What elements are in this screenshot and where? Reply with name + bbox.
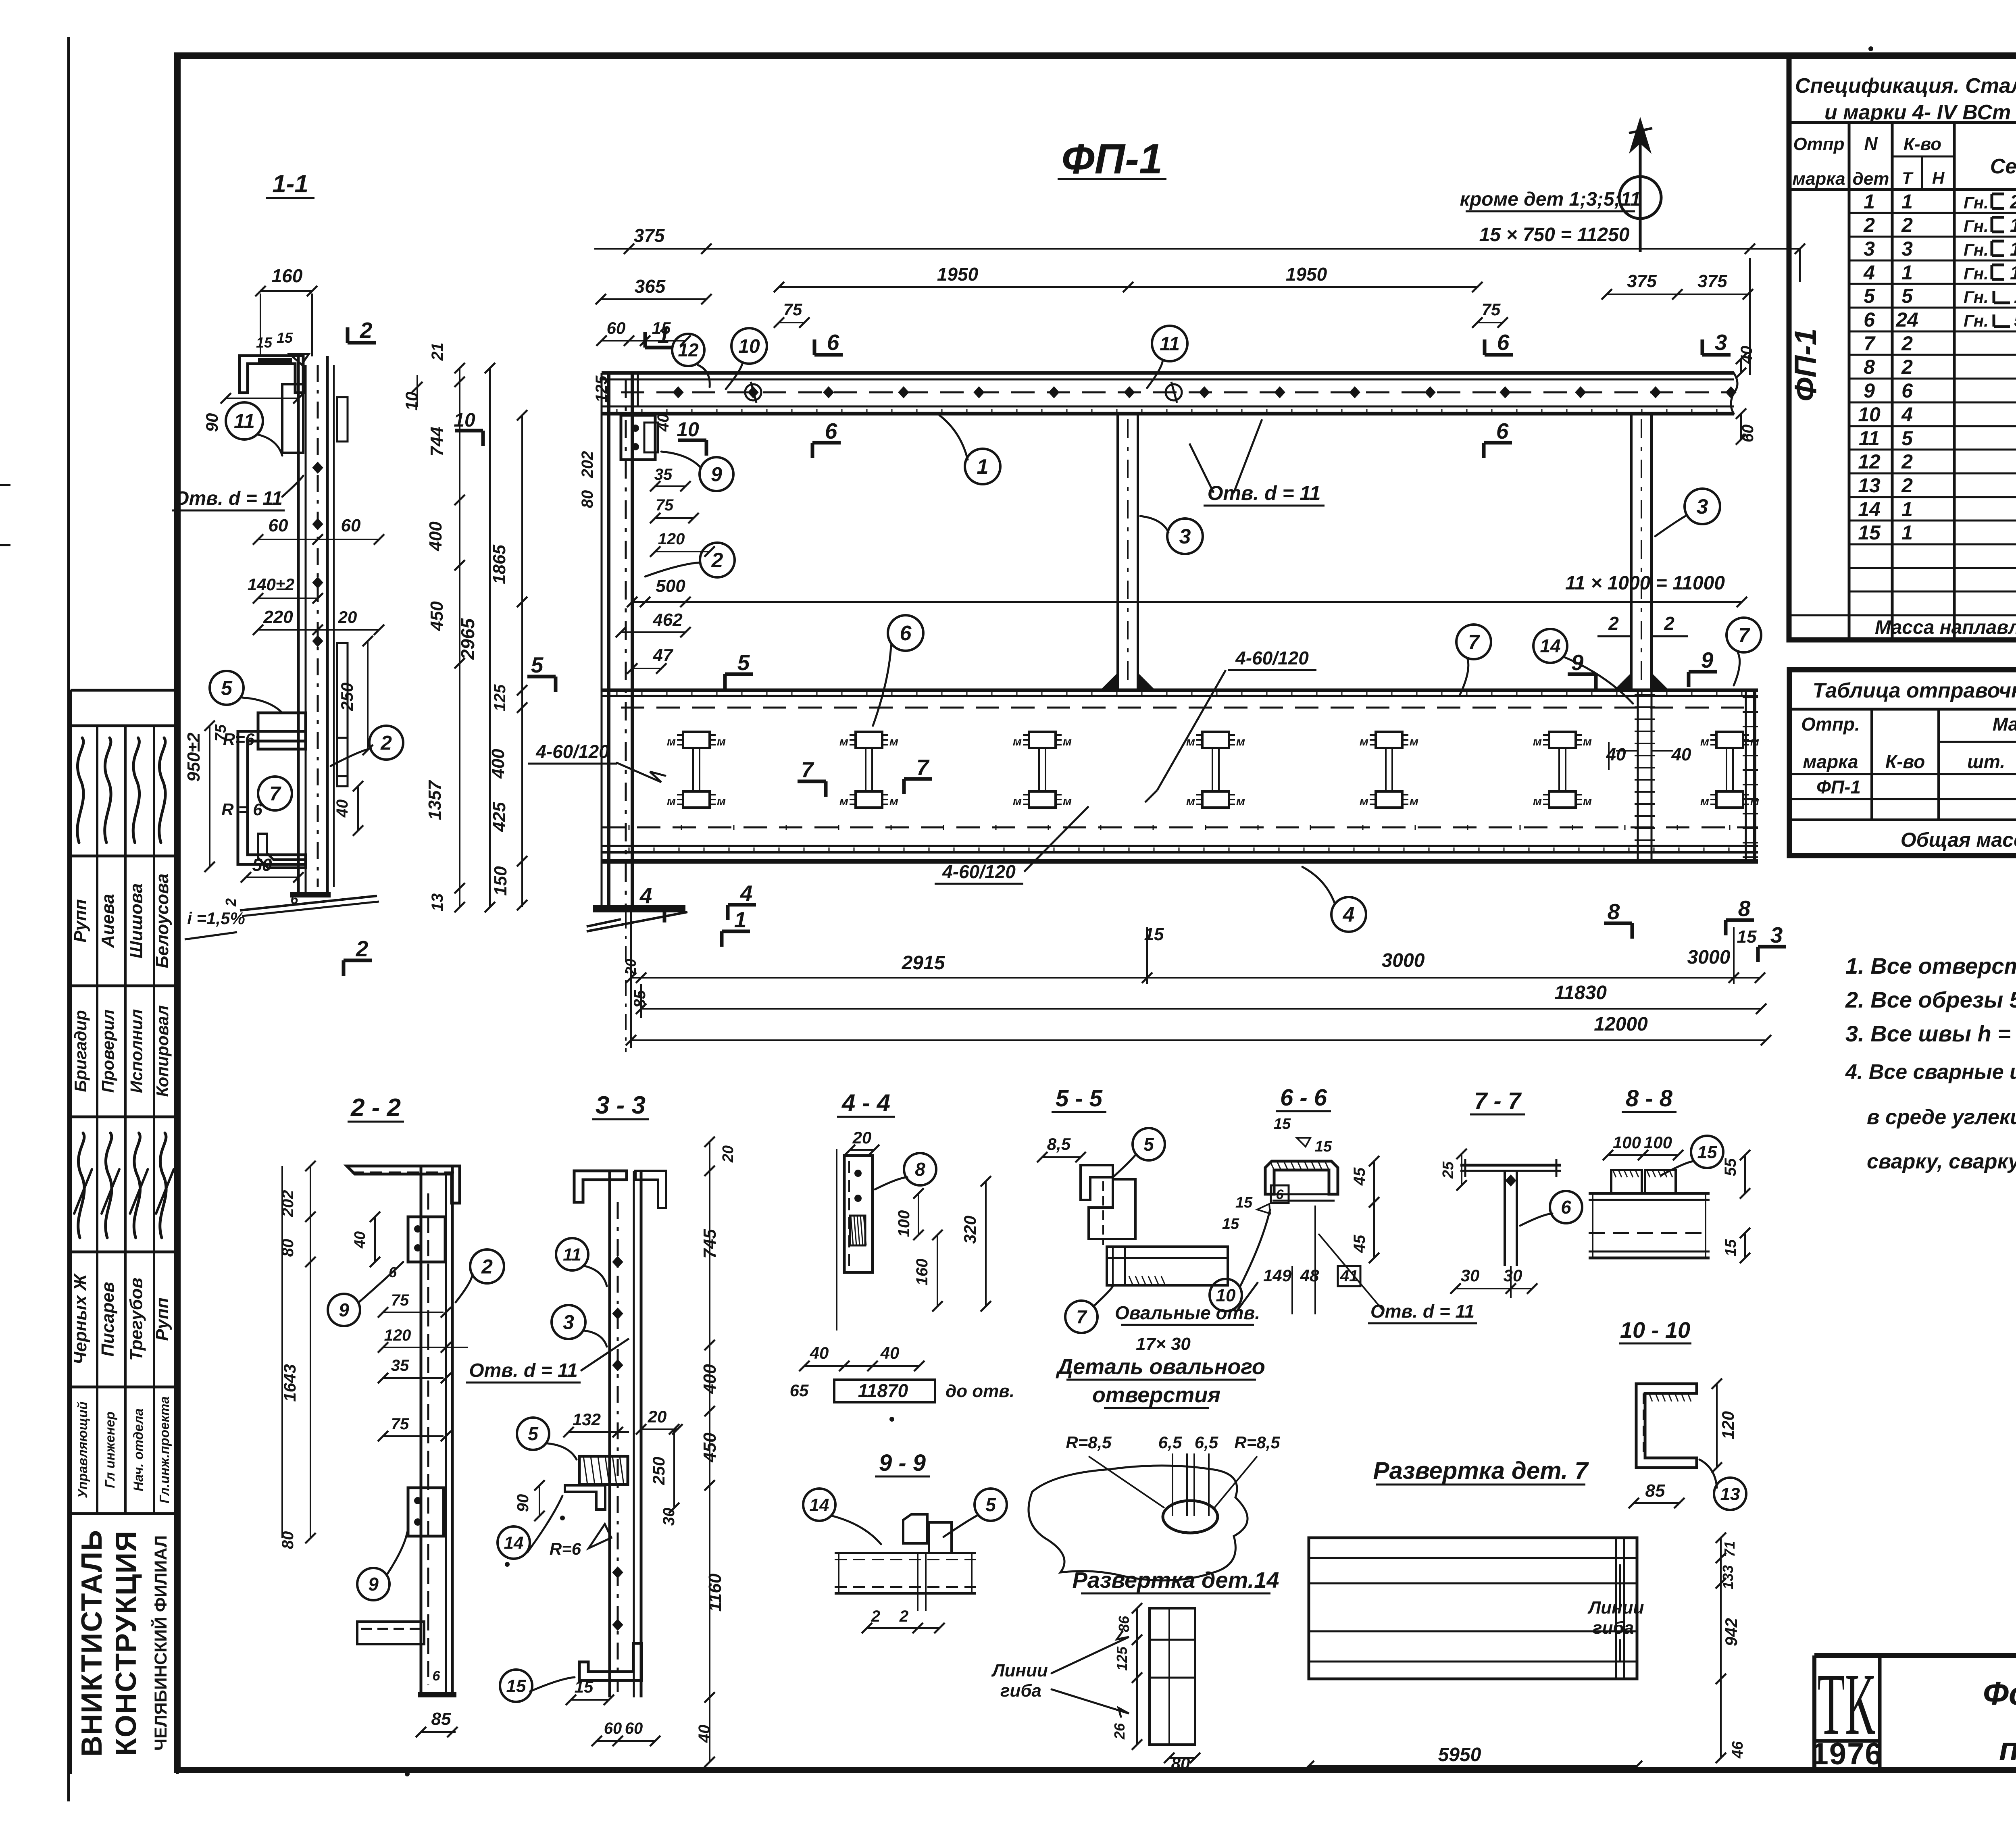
svg-text:10: 10 bbox=[738, 336, 760, 357]
svg-text:Гн.: Гн. bbox=[1964, 217, 1989, 235]
svg-text:Деталь овального: Деталь овального bbox=[1056, 1355, 1265, 1379]
svg-text:м: м bbox=[1013, 735, 1022, 748]
svg-text:8: 8 bbox=[1864, 356, 1875, 378]
svg-text:7 - 7: 7 - 7 bbox=[1474, 1088, 1522, 1114]
svg-text:90: 90 bbox=[202, 413, 221, 432]
svg-text:4 - 4: 4 - 4 bbox=[841, 1089, 890, 1116]
svg-text:250: 250 bbox=[649, 1457, 668, 1485]
svg-text:Развертка дет.14: Развертка дет.14 bbox=[1072, 1567, 1279, 1593]
svg-text:125: 125 bbox=[593, 375, 610, 402]
svg-text:250×125×6: 250×125×6 bbox=[2010, 192, 2016, 213]
svg-text:2: 2 bbox=[1608, 613, 1619, 634]
svg-text:5: 5 bbox=[1901, 427, 1913, 450]
svg-text:15: 15 bbox=[256, 334, 273, 351]
svg-text:40: 40 bbox=[654, 414, 672, 432]
svg-text:м: м bbox=[1236, 795, 1245, 808]
svg-text:80: 80 bbox=[279, 1239, 297, 1257]
svg-text:3: 3 bbox=[563, 1311, 574, 1334]
svg-text:2: 2 bbox=[1901, 474, 1913, 497]
svg-text:5: 5 bbox=[528, 1423, 539, 1444]
svg-text:10 - 10: 10 - 10 bbox=[1620, 1317, 1690, 1343]
svg-text:320: 320 bbox=[960, 1216, 979, 1244]
svg-text:202: 202 bbox=[579, 451, 596, 479]
svg-text:3: 3 bbox=[1179, 525, 1191, 548]
svg-text:20: 20 bbox=[852, 1128, 872, 1147]
svg-text:Гн.: Гн. bbox=[1964, 264, 1989, 283]
svg-text:75: 75 bbox=[1482, 300, 1501, 319]
svg-text:Отв. d = 11: Отв. d = 11 bbox=[1208, 482, 1321, 504]
svg-text:6 - 6: 6 - 6 bbox=[1280, 1085, 1327, 1111]
svg-text:м: м bbox=[1583, 735, 1592, 748]
svg-text:5: 5 bbox=[531, 652, 544, 677]
svg-text:85: 85 bbox=[1645, 1481, 1665, 1501]
svg-text:40: 40 bbox=[696, 1725, 713, 1743]
svg-text:1865: 1865 bbox=[489, 545, 509, 584]
svg-text:1643: 1643 bbox=[280, 1364, 299, 1401]
svg-text:2: 2 bbox=[711, 549, 723, 572]
svg-text:3: 3 bbox=[1901, 237, 1913, 260]
svg-text:400: 400 bbox=[700, 1364, 720, 1394]
svg-text:9: 9 bbox=[368, 1574, 379, 1595]
svg-text:3: 3 bbox=[1697, 495, 1708, 518]
svg-text:м: м bbox=[1360, 735, 1368, 748]
svg-text:75: 75 bbox=[783, 300, 802, 319]
svg-text:м: м bbox=[1410, 735, 1418, 748]
svg-text:Исполнил: Исполнил bbox=[127, 1009, 146, 1093]
svg-text:20: 20 bbox=[338, 608, 357, 627]
svg-text:6: 6 bbox=[433, 1668, 441, 1684]
svg-text:К-во: К-во bbox=[1885, 751, 1925, 772]
svg-text:125: 125 bbox=[1114, 1646, 1130, 1671]
svg-text:60: 60 bbox=[1739, 425, 1757, 443]
svg-text:до отв.: до отв. bbox=[946, 1381, 1014, 1401]
svg-text:11: 11 bbox=[1160, 333, 1180, 355]
svg-text:65: 65 bbox=[790, 1381, 809, 1400]
svg-text:К-во: К-во bbox=[1904, 134, 1941, 154]
svg-text:15: 15 bbox=[1315, 1138, 1332, 1155]
svg-text:6: 6 bbox=[825, 419, 837, 444]
svg-text:1: 1 bbox=[734, 907, 747, 932]
svg-text:Нач. отдела: Нач. отдела bbox=[131, 1408, 146, 1491]
svg-text:Гн.: Гн. bbox=[1964, 311, 1989, 330]
svg-text:R=6: R=6 bbox=[550, 1539, 581, 1558]
svg-text:м: м bbox=[1063, 735, 1072, 748]
svg-text:Гн.: Гн. bbox=[1964, 193, 1989, 212]
svg-text:Гн.: Гн. bbox=[1964, 240, 1989, 259]
svg-text:Сечение: Сечение bbox=[1990, 155, 2016, 178]
svg-text:м: м bbox=[1013, 795, 1022, 808]
svg-text:4: 4 bbox=[740, 881, 753, 906]
svg-text:5 - 5: 5 - 5 bbox=[1056, 1085, 1103, 1112]
svg-text:м: м bbox=[717, 795, 726, 808]
svg-text:R=8,5: R=8,5 bbox=[1066, 1433, 1112, 1452]
svg-text:м: м bbox=[839, 795, 848, 808]
svg-text:20: 20 bbox=[720, 1145, 737, 1163]
svg-text:м: м bbox=[1750, 735, 1759, 748]
svg-text:8 - 8: 8 - 8 bbox=[1626, 1085, 1673, 1112]
svg-text:80: 80 bbox=[279, 1531, 297, 1549]
svg-text:1976: 1976 bbox=[1811, 1737, 1883, 1771]
svg-text:при шаге ферм 12м: при шаге ферм 12м bbox=[1999, 1731, 2016, 1768]
svg-text:7: 7 bbox=[1076, 1306, 1087, 1327]
svg-text:ФП-1: ФП-1 bbox=[1816, 777, 1861, 797]
svg-text:6,5: 6,5 bbox=[1158, 1433, 1182, 1452]
svg-text:8: 8 bbox=[1738, 896, 1751, 921]
svg-text:6: 6 bbox=[1864, 308, 1875, 331]
svg-text:50: 50 bbox=[252, 855, 272, 875]
svg-text:55: 55 bbox=[1722, 1158, 1739, 1176]
svg-text:8,5: 8,5 bbox=[1047, 1135, 1071, 1154]
svg-text:гиба: гиба bbox=[1593, 1618, 1634, 1638]
svg-text:Черных Ж: Черных Ж bbox=[71, 1273, 90, 1364]
svg-text:м: м bbox=[1236, 735, 1245, 748]
svg-text:3000: 3000 bbox=[1382, 950, 1425, 971]
svg-text:м: м bbox=[1360, 795, 1368, 808]
svg-text:Гл инженер: Гл инженер bbox=[102, 1412, 117, 1488]
svg-text:75: 75 bbox=[656, 496, 674, 514]
svg-text:2: 2 bbox=[380, 732, 392, 754]
svg-text:25: 25 bbox=[1440, 1161, 1457, 1179]
svg-text:Отпр.: Отпр. bbox=[1801, 714, 1860, 735]
svg-text:Отв. d = 11: Отв. d = 11 bbox=[1370, 1301, 1475, 1322]
svg-text:1: 1 bbox=[977, 455, 989, 479]
svg-text:160: 160 bbox=[272, 265, 303, 286]
svg-text:2: 2 bbox=[1901, 214, 1913, 236]
svg-text:1: 1 bbox=[1901, 261, 1913, 284]
svg-text:4: 4 bbox=[1901, 403, 1913, 426]
svg-text:м: м bbox=[717, 735, 726, 748]
svg-text:15: 15 bbox=[652, 319, 671, 337]
svg-text:2: 2 bbox=[1901, 332, 1913, 355]
svg-text:1950: 1950 bbox=[1286, 264, 1327, 285]
svg-text:120×60×6: 120×60×6 bbox=[2010, 262, 2016, 284]
svg-text:м: м bbox=[1700, 795, 1709, 808]
svg-text:950±2: 950±2 bbox=[184, 732, 204, 782]
svg-text:5: 5 bbox=[985, 1494, 996, 1515]
svg-text:Таблица отправочных марок: Таблица отправочных марок bbox=[1812, 679, 2016, 702]
svg-text:40: 40 bbox=[352, 1231, 369, 1249]
svg-text:отверстия: отверстия bbox=[1092, 1383, 1220, 1407]
svg-text:942: 942 bbox=[1722, 1618, 1741, 1646]
svg-text:5: 5 bbox=[221, 677, 233, 700]
svg-text:4: 4 bbox=[1863, 261, 1875, 284]
svg-text:1357: 1357 bbox=[425, 780, 445, 820]
svg-text:гиба: гиба bbox=[1000, 1681, 1041, 1701]
svg-text:14: 14 bbox=[1540, 635, 1560, 656]
svg-text:Общая масса:: Общая масса: bbox=[1901, 829, 2016, 851]
svg-text:120: 120 bbox=[1718, 1411, 1737, 1439]
svg-text:450: 450 bbox=[700, 1433, 720, 1463]
svg-text:Управляющий: Управляющий bbox=[75, 1401, 90, 1498]
svg-text:м: м bbox=[1063, 795, 1072, 808]
svg-text:120: 120 bbox=[658, 530, 685, 548]
svg-text:3: 3 bbox=[1715, 330, 1727, 355]
svg-text:2: 2 bbox=[356, 936, 369, 961]
svg-text:2: 2 bbox=[1901, 450, 1913, 473]
svg-text:60: 60 bbox=[604, 1720, 622, 1737]
svg-text:100: 100 bbox=[895, 1210, 913, 1237]
svg-text:7: 7 bbox=[269, 783, 281, 805]
svg-text:марка: марка bbox=[1803, 751, 1858, 772]
svg-text:1: 1 bbox=[1901, 498, 1913, 521]
svg-text:2: 2 bbox=[1664, 613, 1674, 634]
svg-text:375: 375 bbox=[1697, 271, 1727, 291]
svg-text:м: м bbox=[1186, 795, 1195, 808]
svg-text:3 - 3: 3 - 3 bbox=[596, 1091, 646, 1119]
svg-text:ВНИКТИСТАЛЬ: ВНИКТИСТАЛЬ bbox=[76, 1529, 108, 1757]
svg-text:17× 30: 17× 30 bbox=[1136, 1334, 1191, 1354]
svg-text:11: 11 bbox=[563, 1245, 581, 1264]
svg-text:Гл.инж.проекта: Гл.инж.проекта bbox=[157, 1396, 172, 1503]
svg-text:4-60/120: 4-60/120 bbox=[942, 861, 1016, 882]
svg-text:сварку, сварку производить: сварку, сварку производить электродами т… bbox=[1867, 1150, 2016, 1173]
svg-text:4. Все сварные швы выполнять: 4. Все сварные швы выполнять полуавтомат… bbox=[1845, 1060, 2016, 1084]
svg-text:9 - 9: 9 - 9 bbox=[879, 1450, 926, 1476]
svg-text:462: 462 bbox=[652, 610, 683, 630]
svg-text:1-1: 1-1 bbox=[272, 170, 308, 198]
svg-text:45: 45 bbox=[1351, 1235, 1368, 1253]
svg-text:1950: 1950 bbox=[937, 264, 979, 285]
svg-text:3: 3 bbox=[1864, 237, 1875, 260]
svg-text:1. Все отверстия d = 23,: 1. Все отверстия d = 23, bbox=[1845, 953, 2016, 979]
svg-text:Бригадир: Бригадир bbox=[71, 1010, 90, 1092]
svg-text:250: 250 bbox=[337, 683, 356, 711]
svg-text:Фонарная панель фП-1: Фонарная панель фП-1 bbox=[1983, 1675, 2016, 1712]
svg-text:м: м bbox=[667, 735, 676, 748]
svg-text:2965: 2965 bbox=[457, 618, 478, 660]
svg-text:100× 5: 100× 5 bbox=[2014, 286, 2016, 307]
svg-text:10: 10 bbox=[454, 410, 475, 431]
svg-text:7: 7 bbox=[801, 757, 814, 782]
svg-text:21: 21 bbox=[429, 343, 446, 361]
svg-text:3000: 3000 bbox=[1687, 947, 1731, 968]
svg-text:15 × 750 = 11250: 15 × 750 = 11250 bbox=[1479, 224, 1630, 246]
svg-text:R=8,5: R=8,5 bbox=[1234, 1433, 1280, 1452]
svg-text:15: 15 bbox=[1858, 521, 1881, 544]
svg-text:125: 125 bbox=[491, 684, 509, 711]
svg-text:R = 6: R = 6 bbox=[221, 800, 262, 819]
svg-text:1: 1 bbox=[1864, 190, 1875, 213]
svg-text:Рупп: Рупп bbox=[152, 1297, 172, 1341]
svg-text:85: 85 bbox=[431, 1709, 451, 1729]
svg-text:2: 2 bbox=[899, 1607, 908, 1625]
svg-text:50×3: 50×3 bbox=[2014, 310, 2016, 331]
svg-text:202: 202 bbox=[279, 1190, 297, 1218]
svg-text:9: 9 bbox=[1864, 379, 1875, 402]
svg-text:375: 375 bbox=[1627, 271, 1657, 291]
svg-text:149: 149 bbox=[1263, 1266, 1292, 1285]
svg-text:5: 5 bbox=[737, 650, 750, 675]
svg-text:140±2: 140±2 bbox=[248, 575, 294, 594]
svg-text:15: 15 bbox=[1722, 1239, 1739, 1256]
svg-text:м: м bbox=[1750, 795, 1759, 808]
svg-text:Аиева: Аиева bbox=[98, 894, 118, 948]
svg-text:2: 2 bbox=[1863, 214, 1875, 236]
svg-text:30: 30 bbox=[1504, 1266, 1522, 1285]
svg-text:40: 40 bbox=[810, 1343, 829, 1362]
svg-text:8: 8 bbox=[1608, 899, 1620, 924]
svg-text:Гн.: Гн. bbox=[1964, 287, 1989, 306]
svg-text:425: 425 bbox=[489, 802, 509, 832]
svg-text:1160: 1160 bbox=[705, 1573, 725, 1612]
svg-text:6: 6 bbox=[900, 622, 912, 645]
svg-text:2: 2 bbox=[1901, 356, 1913, 378]
svg-text:365: 365 bbox=[635, 276, 666, 297]
svg-text:2 - 2: 2 - 2 bbox=[350, 1094, 401, 1122]
svg-text:745: 745 bbox=[700, 1229, 720, 1259]
svg-text:в среде углекислого газа; в: в среде углекислого газа; в случае перех… bbox=[1867, 1106, 2016, 1129]
svg-text:40: 40 bbox=[880, 1343, 900, 1362]
svg-text:Т: Т bbox=[1902, 169, 1914, 187]
svg-text:40: 40 bbox=[1738, 346, 1756, 364]
svg-text:11: 11 bbox=[234, 410, 255, 433]
svg-text:Развертка дет. 7: Развертка дет. 7 bbox=[1373, 1457, 1589, 1484]
svg-text:дет: дет bbox=[1853, 169, 1889, 189]
svg-text:11870: 11870 bbox=[858, 1380, 908, 1401]
svg-text:100: 100 bbox=[1613, 1133, 1641, 1152]
svg-text:500: 500 bbox=[656, 576, 685, 596]
svg-text:2. Все обрезы 50,: 2. Все обрезы 50, bbox=[1845, 987, 2016, 1012]
svg-text:м: м bbox=[889, 795, 898, 808]
svg-text:24: 24 bbox=[1895, 308, 1918, 331]
svg-text:4-60/120: 4-60/120 bbox=[1235, 648, 1309, 668]
svg-text:11830: 11830 bbox=[1554, 982, 1607, 1004]
svg-text:м: м bbox=[667, 795, 676, 808]
svg-text:35: 35 bbox=[654, 466, 673, 483]
svg-text:30: 30 bbox=[660, 1508, 678, 1526]
svg-text:30: 30 bbox=[1461, 1266, 1480, 1285]
svg-text:6: 6 bbox=[1276, 1187, 1284, 1202]
svg-text:4: 4 bbox=[639, 883, 652, 908]
svg-text:47: 47 bbox=[653, 645, 674, 665]
svg-text:10: 10 bbox=[1216, 1285, 1236, 1305]
svg-text:400: 400 bbox=[488, 749, 508, 779]
svg-text:13: 13 bbox=[1720, 1484, 1740, 1504]
svg-text:120×50×4: 120×50×4 bbox=[2010, 239, 2016, 260]
svg-text:м: м bbox=[1583, 795, 1592, 808]
svg-text:20: 20 bbox=[648, 1407, 667, 1426]
svg-text:3: 3 bbox=[1770, 922, 1783, 947]
svg-text:Белоусова: Белоусова bbox=[152, 873, 172, 968]
svg-text:15: 15 bbox=[1737, 927, 1757, 947]
svg-text:ФП-1: ФП-1 bbox=[1789, 328, 1823, 402]
svg-text:м: м bbox=[889, 735, 898, 748]
svg-text:Линии: Линии bbox=[991, 1661, 1048, 1680]
svg-text:м: м bbox=[1533, 795, 1542, 808]
svg-text:6: 6 bbox=[389, 1264, 397, 1281]
svg-text:40: 40 bbox=[1671, 745, 1691, 764]
svg-text:R=6: R=6 bbox=[223, 730, 255, 749]
svg-text:450: 450 bbox=[427, 601, 447, 631]
svg-text:4-60/120: 4-60/120 bbox=[535, 741, 609, 762]
svg-text:2: 2 bbox=[223, 898, 239, 907]
svg-text:2915: 2915 bbox=[902, 952, 946, 974]
svg-text:2: 2 bbox=[871, 1607, 880, 1625]
svg-text:15: 15 bbox=[1235, 1194, 1253, 1211]
svg-text:6: 6 bbox=[1496, 419, 1509, 444]
svg-text:48: 48 bbox=[1300, 1266, 1319, 1285]
svg-text:120: 120 bbox=[384, 1326, 411, 1344]
svg-text:14: 14 bbox=[1858, 498, 1881, 521]
svg-text:м: м bbox=[1410, 795, 1418, 808]
svg-text:12000: 12000 bbox=[1594, 1014, 1648, 1035]
svg-text:Масса наплавленного металла: Масса наплавленного металла 1% bbox=[1875, 617, 2016, 638]
svg-text:1: 1 bbox=[1901, 190, 1913, 213]
svg-text:5950: 5950 bbox=[1438, 1744, 1481, 1766]
svg-text:60: 60 bbox=[341, 516, 361, 535]
svg-text:40: 40 bbox=[333, 800, 351, 818]
svg-text:9: 9 bbox=[711, 463, 722, 486]
svg-text:60: 60 bbox=[607, 319, 626, 337]
svg-text:м: м bbox=[1700, 735, 1709, 748]
svg-text:400: 400 bbox=[426, 521, 446, 552]
svg-text:15: 15 bbox=[1274, 1116, 1291, 1133]
svg-text:9: 9 bbox=[1701, 648, 1714, 673]
svg-text:5: 5 bbox=[1864, 285, 1875, 307]
svg-text:220: 220 bbox=[263, 607, 293, 627]
svg-text:6: 6 bbox=[1901, 379, 1913, 402]
svg-text:15: 15 bbox=[506, 1676, 526, 1696]
svg-text:75: 75 bbox=[391, 1415, 409, 1433]
svg-text:N: N bbox=[1864, 133, 1878, 154]
svg-text:м: м bbox=[1533, 735, 1542, 748]
svg-text:15: 15 bbox=[1222, 1216, 1239, 1233]
svg-text:3. Все швы h = 4,: 3. Все швы h = 4, bbox=[1845, 1021, 2016, 1046]
svg-text:35: 35 bbox=[391, 1357, 409, 1374]
svg-text:и марки 4- IV ВСт 3 кп по: и марки 4- IV ВСт 3 кп по ГОСТ 16523-70* bbox=[1824, 101, 2016, 124]
svg-text:13: 13 bbox=[429, 893, 446, 912]
svg-text:15: 15 bbox=[277, 329, 293, 346]
svg-text:150: 150 bbox=[491, 866, 510, 896]
svg-text:11: 11 bbox=[1859, 427, 1880, 450]
svg-text:75: 75 bbox=[391, 1291, 409, 1309]
svg-text:6: 6 bbox=[291, 892, 299, 907]
svg-text:марка: марка bbox=[1792, 169, 1845, 189]
svg-text:Рупп: Рупп bbox=[71, 899, 90, 943]
svg-text:6: 6 bbox=[1497, 330, 1510, 355]
svg-text:2: 2 bbox=[360, 318, 373, 343]
svg-text:100: 100 bbox=[1644, 1133, 1672, 1152]
svg-text:15: 15 bbox=[575, 1677, 594, 1696]
svg-text:26: 26 bbox=[1111, 1723, 1128, 1740]
svg-text:14: 14 bbox=[810, 1495, 829, 1515]
svg-text:Шишова: Шишова bbox=[127, 883, 146, 958]
svg-text:11 × 1000 = 11000: 11 × 1000 = 11000 bbox=[1565, 573, 1725, 594]
svg-text:ФП-1: ФП-1 bbox=[1062, 135, 1163, 183]
svg-text:Спецификация. Сталь марок ВС: Спецификация. Сталь марок ВСт 3пс 6 и ВС… bbox=[1795, 74, 2016, 98]
svg-text:9: 9 bbox=[339, 1299, 349, 1320]
svg-text:120 ×60×6: 120 ×60×6 bbox=[2010, 215, 2016, 236]
svg-text:12: 12 bbox=[678, 339, 699, 360]
svg-text:80: 80 bbox=[579, 490, 596, 508]
svg-text:7: 7 bbox=[916, 755, 930, 780]
svg-text:Н: Н bbox=[1932, 169, 1945, 187]
svg-text:90: 90 bbox=[514, 1494, 532, 1512]
svg-text:Писарев: Писарев bbox=[98, 1282, 118, 1356]
svg-text:45: 45 bbox=[1351, 1167, 1368, 1186]
svg-text:60: 60 bbox=[625, 1720, 643, 1737]
svg-text:шт.: шт. bbox=[1967, 751, 2005, 772]
svg-text:7: 7 bbox=[1738, 624, 1750, 647]
svg-text:i =1,5%: i =1,5% bbox=[187, 909, 245, 928]
svg-text:Отпр: Отпр bbox=[1793, 134, 1844, 154]
svg-text:6,5: 6,5 bbox=[1195, 1433, 1218, 1452]
svg-text:Линии: Линии bbox=[1587, 1598, 1644, 1618]
svg-text:7: 7 bbox=[1864, 332, 1876, 355]
svg-text:КОНСТРУКЦИЯ: КОНСТРУКЦИЯ bbox=[110, 1530, 142, 1756]
svg-text:7: 7 bbox=[1468, 631, 1480, 654]
svg-text:м: м bbox=[839, 735, 848, 748]
